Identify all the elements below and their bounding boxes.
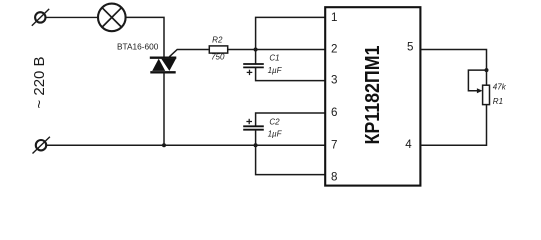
wiper arrowhead — [477, 88, 483, 93]
lamp HL1 — [98, 4, 126, 32]
terminal X2 bottom — [33, 137, 50, 154]
svg-text:C2: C2 — [269, 117, 280, 126]
svg-text:КР1182ПМ1: КР1182ПМ1 — [361, 46, 384, 145]
triac VS1 — [150, 58, 177, 73]
svg-text:6: 6 — [331, 106, 337, 119]
op-amp U1 КР1182ПМ1 body — [325, 7, 420, 185]
svg-text:3: 3 — [331, 74, 337, 87]
wire lamp to triac anode (corner down) — [126, 17, 164, 57]
node junction at R2 output — [254, 48, 258, 52]
svg-text:BTA16-600: BTA16-600 — [117, 42, 159, 52]
wire R2 to pin 2 — [228, 49, 326, 51]
svg-text:1µF: 1µF — [268, 130, 283, 139]
svg-text:R2: R2 — [212, 35, 223, 44]
wire triac gate to R2 — [169, 50, 208, 57]
wire bottom rail to pin 7 — [47, 144, 326, 146]
svg-text:47k: 47k — [493, 82, 507, 91]
wire top rail terminal to lamp — [46, 16, 98, 18]
node triac junction on bottom rail — [162, 143, 166, 147]
node C2 junction on bottom rail — [254, 143, 258, 147]
svg-text:R1: R1 — [493, 97, 503, 106]
resistor R1 potentiometer — [483, 85, 490, 104]
polarity + of C2 — [246, 119, 252, 124]
svg-text:2: 2 — [331, 43, 337, 56]
svg-text:5: 5 — [407, 41, 413, 54]
wire triac cathode down to bottom rail — [163, 72, 165, 145]
wire pin 6 to C2 — [256, 113, 326, 126]
node wiper junction — [485, 68, 489, 72]
capacitor C2 — [243, 126, 264, 129]
svg-text:750: 750 — [211, 53, 225, 62]
wire C1 to pin 3 — [256, 67, 326, 80]
wire junction up to pin 1 — [256, 17, 326, 49]
svg-text:1: 1 — [331, 11, 337, 24]
wire wiper bracket — [468, 70, 486, 91]
wire pin 5 to R1 — [420, 50, 486, 86]
svg-text:~ 220 В: ~ 220 В — [31, 56, 48, 108]
svg-text:7: 7 — [331, 139, 337, 152]
wire R1 to pin 4 — [420, 105, 486, 146]
svg-text:4: 4 — [405, 138, 412, 151]
svg-text:8: 8 — [331, 171, 337, 184]
capacitor C1 — [243, 64, 264, 67]
wire junction down to C1 — [255, 50, 257, 65]
svg-text:1µF: 1µF — [268, 66, 283, 75]
terminal X1 top — [32, 9, 49, 26]
resistor R2 — [209, 46, 227, 53]
polarity + of C1 — [247, 70, 253, 75]
wire junction down to pin 8 — [256, 145, 326, 174]
wire C2 down to bottom rail — [255, 130, 257, 146]
svg-text:C1: C1 — [269, 53, 279, 62]
